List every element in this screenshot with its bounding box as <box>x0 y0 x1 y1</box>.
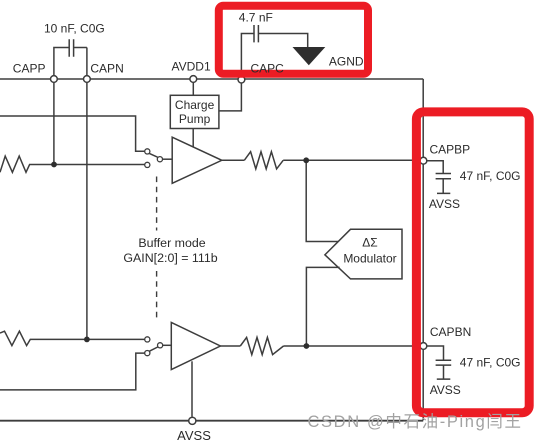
wire upper-left to switch S1 upper throw <box>0 116 145 151</box>
switch S2 lower throw contact <box>145 351 150 356</box>
wire node C down to modulator upper input <box>306 160 338 241</box>
svg-text:Charge: Charge <box>175 98 215 112</box>
svg-text:CAPBP: CAPBP <box>430 143 471 157</box>
charge pump box U3 <box>170 95 219 128</box>
svg-text:CAPC: CAPC <box>251 61 285 75</box>
junction node A <box>51 162 57 168</box>
annotation red box top (4.7nF group) <box>219 6 368 74</box>
capacitor C1 10nF <box>54 39 87 76</box>
switch S1 common contact <box>157 157 162 162</box>
ground AGND symbol <box>293 47 326 65</box>
pin CAPBN terminal <box>420 343 427 350</box>
wire switch S2 common to U2 input <box>163 344 172 346</box>
capacitor C4 47nF bottom <box>427 346 451 379</box>
switch S1 blade <box>149 153 157 157</box>
wire switch S1 common to U1 input <box>163 158 173 160</box>
svg-text:Pump: Pump <box>179 112 211 126</box>
wire charge pump to CAPC node <box>219 83 242 111</box>
capacitor C3 47nF top <box>427 161 451 194</box>
dashed buffer-mode boundary <box>156 177 158 322</box>
wire U2 output <box>220 345 240 347</box>
svg-text:GAIN[2:0] = 111b: GAIN[2:0] = 111b <box>123 251 217 265</box>
switch S1 lower throw contact <box>145 162 150 167</box>
svg-text:AGND: AGND <box>329 54 364 68</box>
svg-text:Buffer mode: Buffer mode <box>138 236 205 250</box>
svg-text:AVSS: AVSS <box>430 383 461 397</box>
svg-text:47 nF, C0G: 47 nF, C0G <box>460 169 521 183</box>
resistor R1 (left, to node A) <box>0 156 145 172</box>
wire U2 to AVSS rail <box>191 361 193 417</box>
pin AVSS terminal <box>189 417 196 424</box>
wire U1 output <box>222 159 245 161</box>
pin CAPBP terminal <box>420 157 427 164</box>
svg-text:10 nF, C0G: 10 nF, C0G <box>44 21 105 35</box>
switch S2 blade <box>149 347 157 351</box>
switch S2 common contact <box>158 343 163 348</box>
resistor R2 (left, to node B) <box>0 331 145 345</box>
annotation red box right (CAPBP/CAPBN group) <box>416 112 529 413</box>
switch S1 upper throw contact <box>145 149 150 154</box>
resistor R4 <box>240 337 283 354</box>
delta-sigma modulator U4 <box>325 229 402 279</box>
pin CAPC terminal <box>238 76 245 83</box>
op-amp U2 <box>171 323 220 370</box>
wire top rail <box>0 78 423 80</box>
wire AVDD1 to charge pump <box>192 83 194 96</box>
wire charge pump to op-amp U1 <box>192 129 194 147</box>
pin CAPP terminal <box>51 76 58 83</box>
wire CAPN down to node B <box>86 79 88 339</box>
svg-text:Modulator: Modulator <box>343 252 396 266</box>
junction node C <box>303 157 309 163</box>
junction node D <box>304 343 310 349</box>
svg-text:ΔΣ: ΔΣ <box>362 235 377 249</box>
svg-text:CAPP: CAPP <box>13 62 46 76</box>
switch S2 upper throw contact <box>145 337 150 342</box>
svg-text:AVSS: AVSS <box>177 428 211 442</box>
svg-text:CAPN: CAPN <box>90 62 123 76</box>
pin CAPN terminal <box>84 76 91 83</box>
svg-text:AVDD1: AVDD1 <box>172 60 211 74</box>
svg-text:47 nF, C0G: 47 nF, C0G <box>460 355 521 369</box>
svg-text:AVSS: AVSS <box>429 197 460 211</box>
junction node B <box>84 337 90 343</box>
wire node D up to modulator lower input <box>306 267 339 346</box>
resistor R3 <box>244 152 283 169</box>
capacitor C2 4.7nF <box>241 25 307 76</box>
wire R3 to CAPBP <box>283 159 420 161</box>
svg-text:CSDN @中石油-Ping闫王: CSDN @中石油-Ping闫王 <box>308 412 522 431</box>
wire AVSS rail <box>0 420 423 422</box>
wire R4 to CAPBN <box>284 345 421 347</box>
pin AVDD1 terminal <box>190 76 197 83</box>
wire CAPP down to node A <box>53 79 55 165</box>
svg-text:4.7 nF: 4.7 nF <box>239 10 273 24</box>
svg-text:CAPBN: CAPBN <box>430 325 471 339</box>
wire lower-left L to switch S2 lower throw <box>0 353 145 390</box>
wire right vertical <box>422 79 424 420</box>
op-amp U1 <box>172 137 222 183</box>
